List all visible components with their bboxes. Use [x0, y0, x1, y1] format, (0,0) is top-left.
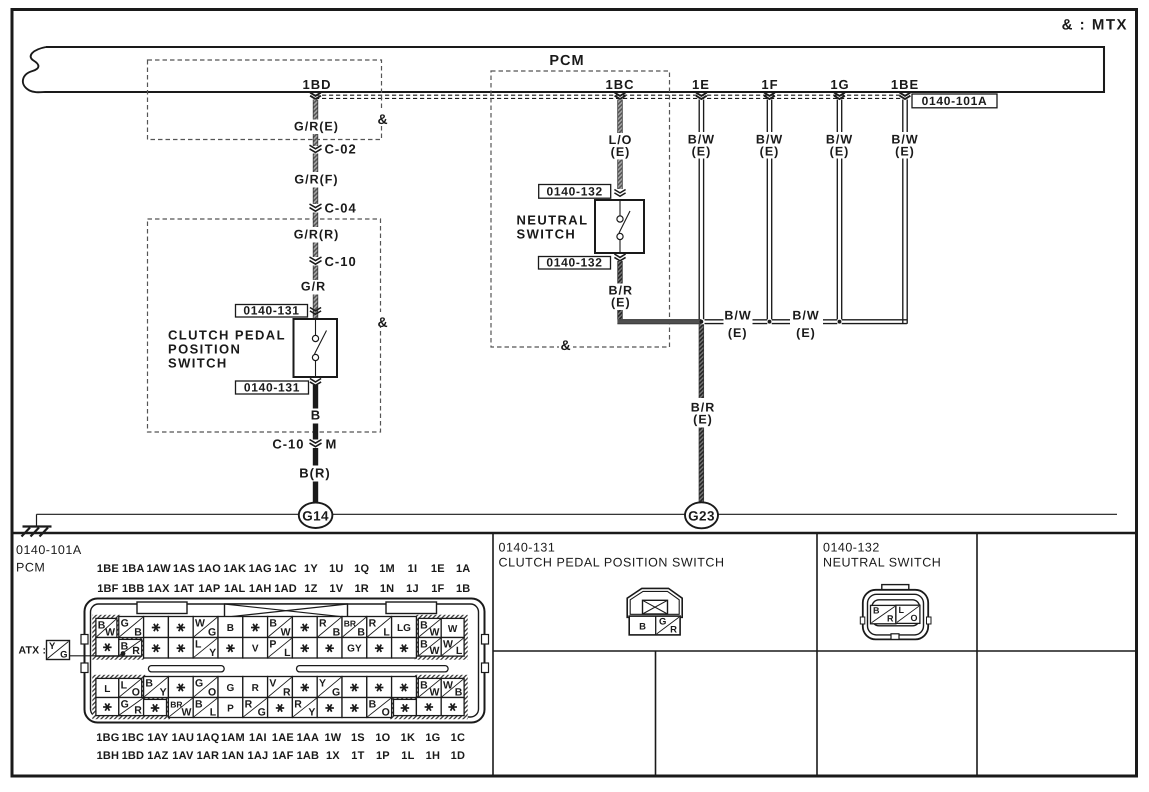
svg-text:B: B — [873, 606, 880, 616]
svg-text:1BB: 1BB — [122, 583, 145, 595]
pin 1E — [692, 77, 710, 99]
svg-text:ATX :: ATX : — [19, 645, 47, 657]
svg-text:(E): (E) — [692, 145, 712, 159]
note: MTX annotation — [1062, 17, 1128, 34]
svg-text:1Q: 1Q — [354, 563, 369, 575]
svg-text:B: B — [420, 619, 428, 631]
svg-text:L: L — [195, 639, 202, 651]
svg-text:1C: 1C — [451, 732, 465, 744]
svg-text:1BG: 1BG — [96, 732, 119, 744]
svg-text:W: W — [443, 639, 453, 651]
dashed box around clutch pedal position switch — [148, 219, 381, 432]
PCM connector 0140-101A body — [81, 599, 489, 723]
ground point G23 — [685, 502, 718, 528]
connector label 0140-132 (top) — [539, 185, 611, 199]
svg-text:G/R(E): G/R(E) — [294, 120, 339, 134]
wire G/R — [313, 266, 318, 281]
wire G/R(R) — [313, 213, 318, 228]
svg-text:L: L — [456, 645, 463, 657]
svg-text:CLUTCH PEDAL: CLUTCH PEDAL — [168, 328, 286, 343]
label G/R(R) — [294, 228, 340, 242]
svg-text:V: V — [252, 644, 259, 655]
svg-text:B/W: B/W — [724, 308, 751, 322]
svg-text:1W: 1W — [324, 732, 341, 744]
PCM pin name row bottom 1 — [96, 732, 465, 744]
table header 0140-101A PCM — [16, 543, 82, 575]
svg-text:B: B — [121, 640, 129, 652]
svg-text:R: R — [252, 683, 260, 694]
PCM connector top tabs — [137, 602, 437, 614]
svg-text:LG: LG — [397, 623, 411, 634]
svg-text:O: O — [910, 613, 917, 623]
connector C-02 — [310, 142, 357, 157]
svg-text:Y: Y — [49, 641, 56, 652]
label B/R (E) — [609, 284, 634, 310]
svg-text:1BF: 1BF — [97, 583, 118, 595]
wire B/R from neutral switch — [617, 261, 622, 284]
svg-text:1AW: 1AW — [146, 563, 171, 575]
wire B (black) — [313, 385, 318, 409]
svg-text:1AA: 1AA — [297, 732, 320, 744]
clutch pedal position switch connector icon — [627, 588, 682, 635]
svg-text:1AD: 1AD — [274, 583, 297, 595]
svg-text:1O: 1O — [375, 732, 390, 744]
label B/W (E) on 1F wire — [756, 133, 783, 159]
wire: bus dashed pair — [315, 95, 910, 98]
svg-text:B/W: B/W — [792, 308, 819, 322]
wire B/W from pin 1F — [767, 100, 771, 320]
svg-text:1F: 1F — [761, 77, 778, 92]
svg-text:W: W — [429, 645, 439, 657]
ATX wire callout — [19, 641, 123, 661]
svg-text:1AK: 1AK — [223, 563, 246, 575]
pin 1G — [830, 77, 849, 99]
label B/W (E) link2 — [792, 308, 819, 340]
label B — [311, 408, 321, 423]
svg-text:1Z: 1Z — [304, 583, 317, 595]
label B/W (E) on 1G wire — [826, 133, 853, 159]
svg-text:G: G — [258, 706, 266, 718]
wire segment to G14 — [313, 482, 318, 504]
svg-text:1AI: 1AI — [249, 732, 267, 744]
svg-text:1BC: 1BC — [122, 732, 145, 744]
label B(R) — [299, 466, 330, 481]
svg-text:1X: 1X — [326, 750, 340, 762]
svg-text:W: W — [195, 618, 205, 630]
svg-text:G: G — [659, 617, 666, 628]
svg-text:1AX: 1AX — [148, 583, 170, 595]
wire segment — [617, 160, 622, 190]
wire B/R elbow to junction — [617, 310, 701, 324]
svg-text:C-10: C-10 — [325, 254, 357, 269]
table grid — [12, 533, 1136, 776]
svg-text:Y: Y — [160, 686, 167, 698]
PCM connector shielded pin group frames (hatched) — [92, 615, 467, 719]
terminal chevrons below clutch switch — [310, 379, 321, 386]
svg-text:1AJ: 1AJ — [248, 750, 269, 762]
wire B/W from pin 1BE — [903, 100, 907, 324]
svg-text:B: B — [333, 626, 341, 638]
svg-text:1K: 1K — [401, 732, 415, 744]
svg-text:Y: Y — [319, 678, 326, 690]
svg-text:1AR: 1AR — [197, 750, 220, 762]
svg-text:0140-132: 0140-132 — [823, 541, 880, 555]
svg-text:1AC: 1AC — [274, 563, 297, 575]
MTX mark on 1BC box — [559, 337, 573, 353]
PCM connector keyway X box — [225, 604, 348, 617]
ground bus wire — [37, 514, 1118, 526]
label G/R(F) — [294, 173, 338, 187]
svg-text:(E): (E) — [796, 326, 816, 340]
svg-text:PCM: PCM — [549, 53, 584, 69]
svg-text:G: G — [60, 650, 67, 661]
clutch pedal position switch — [294, 319, 338, 377]
wire B/W from pin 1G — [837, 100, 841, 320]
svg-text:1BE: 1BE — [891, 77, 919, 92]
svg-text:1E: 1E — [431, 563, 445, 575]
svg-text:L: L — [284, 647, 291, 659]
svg-text:W: W — [448, 624, 458, 635]
svg-text:M: M — [326, 437, 338, 452]
svg-text:L: L — [899, 605, 905, 615]
svg-text:P: P — [269, 639, 276, 651]
svg-text:1AZ: 1AZ — [147, 750, 168, 762]
neutral switch — [595, 200, 644, 253]
ground point G14 — [299, 503, 333, 528]
svg-text:&: & — [377, 111, 388, 127]
label B/W (E) link1 — [724, 308, 751, 340]
svg-text:0140-101A: 0140-101A — [922, 94, 988, 108]
terminal chevrons below neutral switch — [614, 254, 625, 261]
svg-text:0140-132: 0140-132 — [547, 185, 603, 199]
svg-text:W: W — [105, 626, 115, 638]
table header 0140-131 — [499, 541, 725, 570]
svg-text:B: B — [455, 686, 463, 698]
table header 0140-132 — [823, 541, 941, 570]
label B/W (E) on 1BE wire — [891, 133, 918, 159]
svg-text:BR: BR — [344, 619, 356, 629]
PCM connector pin cells — [96, 617, 464, 719]
svg-text:0140-131: 0140-131 — [244, 380, 300, 394]
wire L/O from pin 1BC — [617, 100, 622, 134]
svg-text:B: B — [269, 618, 277, 630]
wire segment — [313, 134, 318, 146]
PCM dashed box around pin 1BD — [148, 60, 382, 140]
neutral switch connector icon — [860, 585, 931, 640]
svg-text:(E): (E) — [830, 145, 850, 159]
svg-text:0140-131: 0140-131 — [499, 541, 556, 555]
svg-text:L: L — [383, 626, 390, 638]
svg-text:&: & — [560, 337, 571, 353]
svg-text:1L: 1L — [401, 750, 414, 762]
svg-text:1AL: 1AL — [224, 583, 245, 595]
PCM label — [549, 53, 584, 69]
connector C-10 / M joint — [272, 437, 337, 452]
svg-text:R: R — [670, 625, 677, 636]
svg-text:G14: G14 — [302, 508, 329, 523]
svg-text:L: L — [121, 679, 128, 691]
terminal chevrons at neutral switch — [614, 190, 625, 197]
label L/O (E) — [609, 133, 633, 159]
wire segment — [313, 295, 318, 319]
svg-text:P: P — [227, 703, 234, 714]
svg-text:R: R — [245, 699, 253, 711]
svg-text:1AN: 1AN — [222, 750, 245, 762]
PCM pin name row top 2 — [97, 583, 470, 595]
svg-text:1BD: 1BD — [122, 750, 145, 762]
svg-text:C-10: C-10 — [272, 437, 304, 452]
svg-text:(E): (E) — [693, 413, 713, 427]
pin 1BC — [605, 77, 634, 99]
label B/R (E) mid — [691, 401, 716, 427]
neutral switch name — [517, 213, 589, 242]
wire segment — [313, 448, 318, 466]
clutch pedal position switch name — [168, 328, 286, 371]
label B/W (E) on 1E wire — [688, 133, 715, 159]
connector label 0140-101A — [912, 94, 997, 108]
svg-text:(E): (E) — [760, 145, 780, 159]
svg-text:NEUTRAL: NEUTRAL — [517, 213, 589, 228]
svg-text:1AM: 1AM — [221, 732, 245, 744]
svg-text:1S: 1S — [351, 732, 365, 744]
PCM pin name row bottom 2 — [97, 750, 466, 762]
PCM pin name row top 1 — [97, 563, 471, 575]
svg-text:1AO: 1AO — [198, 563, 221, 575]
svg-text:1AB: 1AB — [297, 750, 320, 762]
svg-text:0140-131: 0140-131 — [243, 303, 299, 317]
svg-text:R: R — [283, 686, 291, 698]
svg-text:B: B — [639, 622, 646, 633]
svg-text:1AH: 1AH — [249, 583, 272, 595]
svg-text:G: G — [208, 626, 216, 638]
svg-text:L: L — [104, 684, 110, 695]
svg-text:0140-101A: 0140-101A — [16, 543, 82, 557]
svg-text:1N: 1N — [380, 583, 394, 595]
svg-text:(E): (E) — [728, 326, 748, 340]
wire: main harness bus from PCM — [23, 47, 1104, 92]
svg-text:(E): (E) — [611, 296, 631, 310]
connector label 0140-131 (bottom) — [236, 380, 309, 394]
svg-text:1G: 1G — [425, 732, 440, 744]
svg-text:W: W — [181, 706, 191, 718]
MTX mark on clutch box — [376, 312, 390, 330]
svg-text:B: B — [420, 679, 428, 691]
connector C-10 — [310, 254, 357, 269]
svg-text:G/R(F): G/R(F) — [294, 173, 338, 187]
svg-text:1AU: 1AU — [172, 732, 195, 744]
connector label 0140-131 (top) — [236, 303, 308, 317]
svg-text:W: W — [443, 679, 453, 691]
wire B/W from pin 1E — [699, 100, 703, 320]
wire G/R(F) — [313, 154, 318, 173]
terminal chevrons at clutch switch — [310, 308, 321, 315]
svg-text:(E): (E) — [895, 145, 915, 159]
svg-text:1M: 1M — [379, 563, 395, 575]
svg-text:1AQ: 1AQ — [196, 732, 219, 744]
ground symbol — [22, 527, 52, 537]
wire segment — [313, 424, 318, 440]
svg-text:1B: 1B — [456, 583, 470, 595]
svg-text:V: V — [269, 678, 276, 690]
svg-text:1T: 1T — [351, 750, 364, 762]
svg-text:1AG: 1AG — [249, 563, 272, 575]
svg-text:0140-132: 0140-132 — [546, 255, 602, 269]
svg-text:G/R: G/R — [301, 280, 326, 294]
wire segment — [313, 243, 318, 258]
svg-text:B: B — [134, 626, 142, 638]
svg-text:R: R — [132, 645, 140, 657]
svg-text:1BD: 1BD — [302, 77, 331, 92]
svg-text:Y: Y — [308, 706, 315, 718]
svg-text:B: B — [357, 626, 365, 638]
svg-text:B: B — [311, 408, 321, 423]
svg-text:(E): (E) — [611, 145, 631, 159]
svg-text:B(R): B(R) — [299, 466, 330, 481]
junction dots — [700, 320, 842, 324]
svg-text:&: & — [377, 314, 388, 330]
svg-text:1BA: 1BA — [122, 563, 145, 575]
svg-text:POSITION: POSITION — [168, 342, 241, 357]
svg-text:1AP: 1AP — [198, 583, 220, 595]
svg-text:G: G — [195, 678, 203, 690]
svg-text:G: G — [121, 699, 129, 711]
svg-text:1I: 1I — [408, 563, 418, 575]
svg-text:R: R — [369, 618, 377, 630]
svg-text:1AT: 1AT — [174, 583, 195, 595]
wire G/R(E) from pin 1BD — [313, 100, 318, 120]
connector label 0140-132 (bottom) — [539, 255, 611, 269]
svg-text:G23: G23 — [688, 508, 715, 523]
svg-text:1A: 1A — [456, 563, 470, 575]
svg-text:1J: 1J — [406, 583, 419, 595]
svg-text:SWITCH: SWITCH — [517, 227, 577, 242]
svg-text:GY: GY — [347, 644, 362, 655]
svg-text:1BC: 1BC — [605, 77, 634, 92]
svg-text:Y: Y — [209, 647, 216, 659]
svg-text:B: B — [195, 699, 203, 711]
svg-text:1F: 1F — [431, 583, 444, 595]
PCM dashed box around pin 1BC — [491, 71, 670, 347]
pin 1F — [761, 77, 778, 99]
wire B/W horizontal link 1E-1F — [705, 320, 768, 324]
svg-text:1AV: 1AV — [172, 750, 194, 762]
wire B/R to G23 — [699, 428, 704, 504]
wire segment — [313, 188, 318, 205]
svg-text:1AS: 1AS — [173, 563, 195, 575]
svg-text:O: O — [132, 686, 140, 698]
svg-text:& : MTX: & : MTX — [1062, 17, 1128, 34]
wire B/R down from junction — [699, 324, 704, 398]
svg-text:R: R — [134, 704, 142, 716]
wire B/W horizontal link 1G-1BE — [842, 320, 907, 324]
pin 1BD — [302, 77, 331, 99]
svg-text:C-02: C-02 — [325, 142, 357, 157]
svg-text:R: R — [319, 618, 327, 630]
svg-text:W: W — [429, 626, 439, 638]
svg-text:1R: 1R — [354, 583, 368, 595]
svg-text:R: R — [294, 699, 302, 711]
label G/R(E) — [294, 120, 339, 134]
svg-text:B: B — [227, 623, 234, 634]
MTX mark on 1BD box — [376, 109, 390, 127]
svg-text:1H: 1H — [426, 750, 440, 762]
svg-text:PCM: PCM — [16, 561, 45, 575]
pin 1BE — [891, 77, 919, 99]
svg-text:1U: 1U — [329, 563, 343, 575]
svg-text:G: G — [121, 618, 129, 630]
svg-text:G: G — [332, 686, 340, 698]
svg-text:C-04: C-04 — [325, 201, 357, 216]
connector C-04 — [310, 201, 357, 216]
svg-text:NEUTRAL SWITCH: NEUTRAL SWITCH — [823, 556, 941, 570]
svg-text:W: W — [429, 686, 439, 698]
svg-text:1P: 1P — [376, 750, 390, 762]
svg-text:1AF: 1AF — [272, 750, 293, 762]
svg-text:CLUTCH PEDAL POSITION SWITCH: CLUTCH PEDAL POSITION SWITCH — [499, 556, 725, 570]
svg-text:B: B — [420, 639, 428, 651]
svg-text:1Y: 1Y — [304, 563, 318, 575]
svg-text:G: G — [227, 683, 235, 694]
svg-text:SWITCH: SWITCH — [168, 356, 228, 371]
svg-text:1AE: 1AE — [272, 732, 294, 744]
svg-text:B: B — [369, 699, 377, 711]
svg-text:G/R(R): G/R(R) — [294, 228, 340, 242]
svg-text:L: L — [210, 706, 217, 718]
svg-text:1D: 1D — [451, 750, 465, 762]
svg-text:R: R — [887, 614, 894, 624]
svg-text:B: B — [145, 678, 153, 690]
svg-text:1BH: 1BH — [97, 750, 120, 762]
svg-text:O: O — [208, 686, 216, 698]
svg-text:1BE: 1BE — [97, 563, 119, 575]
svg-text:1AY: 1AY — [147, 732, 168, 744]
svg-text:O: O — [382, 706, 390, 718]
svg-text:W: W — [281, 626, 291, 638]
wire B/W horizontal link 1F-1G — [772, 320, 838, 324]
svg-text:1V: 1V — [329, 583, 343, 595]
svg-text:1E: 1E — [692, 77, 710, 92]
svg-text:1G: 1G — [830, 77, 849, 92]
label G/R — [301, 280, 326, 294]
PCM connector middle slots — [148, 666, 448, 672]
